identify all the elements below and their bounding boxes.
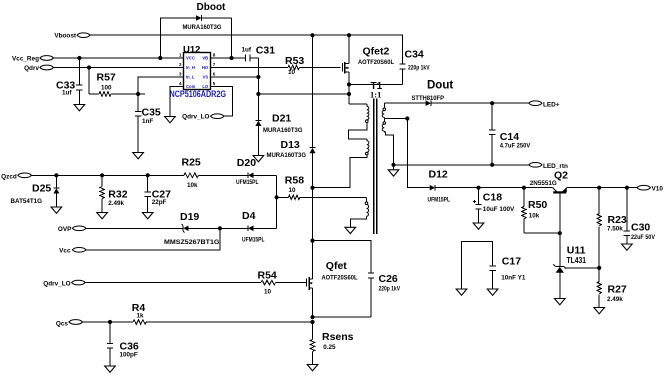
diode D12 UFM15PL <box>428 169 553 204</box>
wire LO pin5 to Qdrv_LO <box>211 86 233 116</box>
svg-text:Qfet: Qfet <box>326 260 348 272</box>
svg-text:R57: R57 <box>97 72 116 84</box>
svg-text:220p 1kV: 220p 1kV <box>408 64 430 71</box>
svg-text:R58: R58 <box>285 174 304 186</box>
wire Vcc to OVP line <box>86 228 220 250</box>
svg-text:0.25: 0.25 <box>323 344 336 351</box>
diode D13 MURA160T3G <box>267 139 316 241</box>
svg-text:NCP5106ADR2G: NCP5106ADR2G <box>170 89 227 99</box>
svg-text:MMSZ5267BT1G: MMSZ5267BT1G <box>164 239 220 246</box>
svg-text:100: 100 <box>101 85 112 92</box>
node Qcs terminal <box>56 320 83 328</box>
svg-text:D4: D4 <box>242 210 256 222</box>
node Vcc_Reg terminal <box>12 55 54 62</box>
svg-text:BAT54T1G: BAT54T1G <box>11 198 43 205</box>
node Vboost terminal <box>54 33 90 40</box>
svg-text:2.49k: 2.49k <box>108 200 124 207</box>
svg-text:UFM15PL: UFM15PL <box>242 236 265 243</box>
node Qzcd terminal <box>1 173 31 180</box>
svg-text:1:1: 1:1 <box>370 90 381 100</box>
svg-text:D21: D21 <box>272 113 291 125</box>
op-amp U11 TL431 <box>553 245 586 299</box>
svg-text:MURA160T3G: MURA160T3G <box>183 24 222 31</box>
ground below C36 <box>105 366 116 372</box>
svg-text:C34: C34 <box>405 48 424 60</box>
transformer T1 secondary winding S1 <box>382 103 407 118</box>
svg-text:Rsens: Rsens <box>322 331 354 343</box>
svg-text:2N5551G: 2N5551G <box>530 180 557 187</box>
wire Qzcd rail <box>32 174 185 176</box>
svg-text:R27: R27 <box>608 284 627 296</box>
svg-text:Dboot: Dboot <box>197 2 227 13</box>
svg-text:C17: C17 <box>502 256 521 268</box>
resistor R58 <box>277 174 367 199</box>
svg-text:UFM15PL: UFM15PL <box>428 196 451 203</box>
transistor Q2 2N5551G <box>530 169 637 266</box>
wire Qdrv rail to U12 pin2 <box>54 67 184 69</box>
svg-text:10k: 10k <box>529 213 540 220</box>
svg-text:LED+: LED+ <box>543 102 560 109</box>
diode Dboot MURA160T3G <box>160 2 231 58</box>
ground below Rsens <box>307 365 318 371</box>
svg-text:VCC: VCC <box>186 56 195 61</box>
ground below R27 <box>594 308 605 314</box>
svg-text:HO: HO <box>202 65 209 70</box>
svg-text:C14: C14 <box>500 131 519 143</box>
svg-text:STTH810FP: STTH810FP <box>412 95 445 102</box>
diode D21 MURA160T3G <box>255 113 302 156</box>
svg-text:Qfet2: Qfet2 <box>363 46 390 58</box>
svg-text:C31: C31 <box>256 45 275 57</box>
svg-text:C18: C18 <box>483 192 502 204</box>
ground below D21 <box>253 156 264 162</box>
svg-text:22uF 50V: 22uF 50V <box>631 234 656 241</box>
op-amp U12 NCP5106ADR2G driver <box>170 45 227 99</box>
capacitor C31 <box>211 45 276 62</box>
svg-text:Vcc: Vcc <box>59 248 71 255</box>
svg-text:Vcc_Reg: Vcc_Reg <box>12 55 39 62</box>
svg-text:Qzcd: Qzcd <box>1 173 17 180</box>
svg-text:UFM15PL: UFM15PL <box>236 179 259 186</box>
wire LED_rtn rail <box>394 164 529 166</box>
ground below auxiliary winding <box>345 227 356 233</box>
svg-text:D12: D12 <box>429 169 448 181</box>
capacitor C33 <box>56 58 83 105</box>
svg-text:R23: R23 <box>608 214 627 226</box>
svg-text:D20: D20 <box>237 157 256 169</box>
capacitor C18 <box>473 188 515 223</box>
svg-text:In_L: In_L <box>186 75 195 80</box>
ground below R32 <box>97 213 108 219</box>
svg-text:Qdrv_LO: Qdrv_LO <box>43 280 70 287</box>
transformer T1 auxiliary winding <box>350 197 368 227</box>
svg-text:Qdrv_LO: Qdrv_LO <box>182 114 209 121</box>
capacitor C35 <box>135 94 161 153</box>
wire Vboost rail <box>90 34 349 36</box>
ground below D25 <box>51 207 62 213</box>
svg-text:1nF: 1nF <box>142 118 153 125</box>
capacitor C26 <box>313 241 401 318</box>
svg-text:10: 10 <box>264 288 272 295</box>
diode D4 UFM15PL <box>242 210 277 243</box>
resistor R4 <box>83 302 313 325</box>
transformer T1 core <box>370 81 383 234</box>
svg-text:OVP: OVP <box>58 226 72 233</box>
ground below secondary <box>393 165 395 170</box>
svg-text:R53: R53 <box>285 55 304 67</box>
wire D20 to D4 vertical <box>276 175 278 228</box>
svg-text:220p 1kV: 220p 1kV <box>379 285 401 292</box>
svg-text:TL431: TL431 <box>567 256 587 265</box>
ground below C18 <box>473 223 484 229</box>
svg-text:U11: U11 <box>567 245 586 257</box>
capacitor C27 <box>145 175 172 212</box>
wire U11 ref to divider <box>565 267 600 269</box>
svg-text:D25: D25 <box>32 183 51 195</box>
wire VS pin6 <box>211 76 259 78</box>
svg-text:D19: D19 <box>180 211 199 223</box>
node Qdrv_LO terminal bottom <box>43 280 85 287</box>
ground below C35 <box>133 153 144 159</box>
capacitor C36 <box>107 322 139 366</box>
svg-text:10: 10 <box>288 69 296 76</box>
svg-text:R32: R32 <box>108 189 127 201</box>
svg-text:2.49k: 2.49k <box>607 296 623 303</box>
svg-text:R25: R25 <box>182 156 201 168</box>
wire R57 node stub <box>138 93 145 95</box>
svg-text:VB: VB <box>202 56 208 61</box>
wire Vcc_Reg rail to U12 pin1 <box>54 57 184 59</box>
node Vcc terminal <box>59 247 86 254</box>
resistor R57 <box>89 68 138 97</box>
resistor R54 <box>85 269 304 295</box>
node LED+ terminal <box>529 101 560 109</box>
diode Dout STTH810FP <box>384 80 528 107</box>
wire VB node vertical <box>257 58 259 120</box>
svg-text:Vboost: Vboost <box>54 33 77 40</box>
transistor Qfet AOTF20S60L <box>304 241 358 318</box>
svg-text:In_H: In_H <box>186 65 195 70</box>
capacitor C14 <box>489 103 531 165</box>
svg-text:R50: R50 <box>528 199 547 211</box>
resistor R27 <box>597 268 627 308</box>
node Qdrv_LO terminal at U12 <box>182 114 224 121</box>
svg-text:Dout: Dout <box>427 80 453 92</box>
ground below C27 <box>142 213 153 219</box>
svg-text:10k: 10k <box>187 182 198 189</box>
ground below U11 <box>555 299 566 305</box>
svg-text:1uf: 1uf <box>62 90 72 97</box>
resistor R32 <box>100 175 128 212</box>
ground below Com <box>165 117 176 123</box>
ground below C17 left <box>456 289 467 295</box>
svg-text:D13: D13 <box>281 139 300 151</box>
capacitor C30 <box>624 188 656 244</box>
ground below C17 right <box>487 289 498 295</box>
diode D19 MMSZ5267BT1G zener <box>86 211 248 246</box>
wire Com pin4 to ground <box>170 86 184 116</box>
svg-text:VS: VS <box>203 75 209 80</box>
transistor Qfet2 AOTF20S60L <box>342 35 394 104</box>
transformer T1 primary winding P1 <box>349 104 369 139</box>
transformer T1 primary winding P2 <box>313 139 369 188</box>
svg-text:AOTF20S60L: AOTF20S60L <box>358 59 394 66</box>
svg-text:7.50k: 7.50k <box>607 225 623 232</box>
svg-text:MURA160T3G: MURA160T3G <box>263 127 303 134</box>
wire In_L link <box>138 77 183 94</box>
diode D25 BAT54T1G <box>11 175 60 207</box>
svg-text:C26: C26 <box>379 273 398 285</box>
diode D20 UFM15PL <box>236 157 277 186</box>
wire Qfet2 source to primary <box>349 103 367 105</box>
svg-text:C35: C35 <box>142 107 161 119</box>
node LED_rtn terminal <box>529 162 568 170</box>
transformer T1 secondary winding S2 <box>382 119 393 165</box>
capacitor C17 <box>462 242 526 289</box>
svg-text:10uF 100V: 10uF 100V <box>483 206 515 213</box>
wire VS node to Qfet2 source <box>258 93 349 95</box>
node junction dots <box>54 33 629 324</box>
resistor R23 <box>597 188 627 268</box>
svg-text:4.7uF 250V: 4.7uF 250V <box>500 143 531 150</box>
svg-text:1uf: 1uf <box>242 46 252 53</box>
svg-text:AOTF20S60L: AOTF20S60L <box>322 274 358 281</box>
svg-text:Qcs: Qcs <box>56 320 69 327</box>
svg-text:U12: U12 <box>183 45 200 56</box>
svg-text:10nF Y1: 10nF Y1 <box>501 275 526 282</box>
svg-text:V10: V10 <box>652 186 664 193</box>
resistor R25 <box>182 156 248 189</box>
node Qdrv terminal <box>24 65 53 72</box>
resistor R53 <box>211 55 341 76</box>
svg-text:100pF: 100pF <box>120 351 138 358</box>
node V10 terminal <box>637 185 663 192</box>
svg-text:10: 10 <box>289 187 297 194</box>
svg-text:C30: C30 <box>631 221 650 233</box>
svg-text:1k: 1k <box>137 313 145 320</box>
capacitor C34 <box>349 35 430 84</box>
node OVP terminal <box>58 226 86 233</box>
ground below C33 <box>74 105 85 111</box>
wire secondary tap to D12 <box>407 119 429 188</box>
resistor Rsens <box>310 322 353 365</box>
ground below C30 <box>622 244 633 250</box>
resistor R50 <box>522 188 560 234</box>
svg-text:MURA160T3G: MURA160T3G <box>267 152 307 159</box>
svg-text:22pF: 22pF <box>152 199 167 206</box>
wire Vboost to Qfet drain vertical <box>312 35 314 147</box>
svg-text:Qdrv: Qdrv <box>24 65 39 72</box>
svg-text:R54: R54 <box>258 269 277 281</box>
